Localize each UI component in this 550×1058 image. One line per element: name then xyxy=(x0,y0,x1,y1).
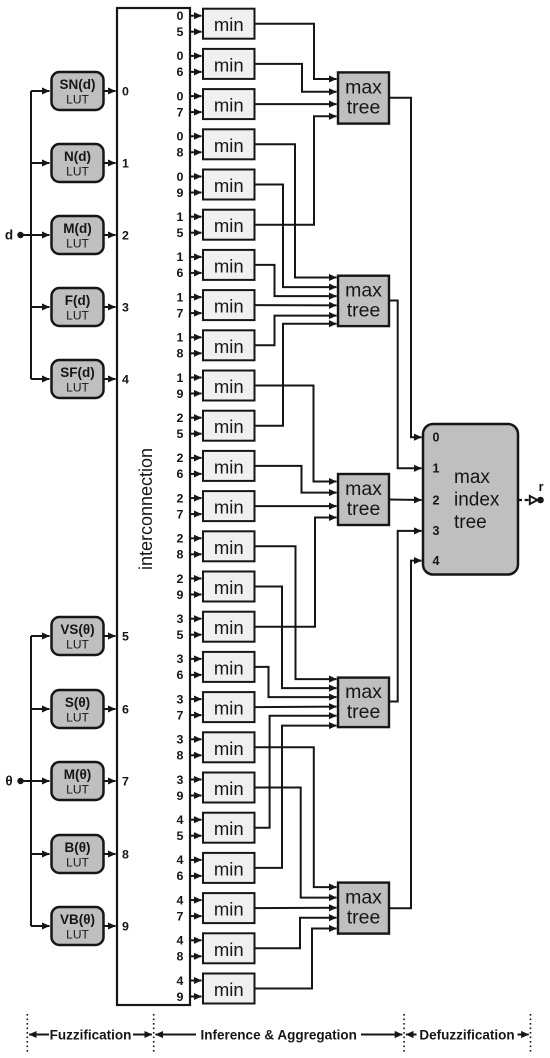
svg-text:1: 1 xyxy=(177,331,184,345)
output r open arrowhead xyxy=(530,496,538,504)
wire min 4,8 to max tree 5 xyxy=(255,918,337,949)
svg-text:min: min xyxy=(214,537,244,558)
svg-text:0: 0 xyxy=(177,49,184,63)
wire min 0,8 to max tree 2 xyxy=(255,144,337,277)
svg-text:3: 3 xyxy=(433,524,440,538)
wire M(θ) output to interconnection, node 7 xyxy=(104,780,116,782)
svg-text:min: min xyxy=(214,979,244,1000)
wire SF(d) output to interconnection, node 4 xyxy=(104,378,116,380)
wire min 1,5 to max tree 1 xyxy=(255,116,337,224)
svg-text:M(d): M(d) xyxy=(63,221,91,236)
svg-text:min: min xyxy=(214,738,244,759)
svg-text:2: 2 xyxy=(177,411,184,425)
svg-text:9: 9 xyxy=(177,186,184,200)
svg-text:9: 9 xyxy=(122,919,129,933)
Fuzzification phase label xyxy=(29,1027,152,1042)
wire min 3,5 to max tree 3 xyxy=(255,518,337,627)
svg-text:min: min xyxy=(214,899,244,920)
min block 11 (rule 2,5) xyxy=(177,411,255,441)
svg-text:9: 9 xyxy=(177,387,184,401)
svg-text:2: 2 xyxy=(177,532,184,546)
svg-text:6: 6 xyxy=(177,869,184,883)
svg-text:min: min xyxy=(214,376,244,397)
wire N(d) output to interconnection, node 1 xyxy=(104,162,116,164)
max tree block 5 xyxy=(338,883,389,934)
wire min 2,5 to max tree 2 xyxy=(255,324,337,426)
wire min 2,7 to max tree 3 xyxy=(255,505,337,507)
svg-text:tree: tree xyxy=(347,96,381,118)
min block 5 (rule 0,9) xyxy=(177,170,255,200)
Inference &amp; Aggregation phase label xyxy=(156,1027,403,1042)
phase separator dotted line x=153.7 xyxy=(153,1014,155,1052)
wire min 3,6 to max tree 4 xyxy=(255,667,337,697)
svg-text:3: 3 xyxy=(122,300,129,314)
svg-text:min: min xyxy=(214,54,244,75)
min block 20 (rule 3,9) xyxy=(177,773,255,803)
wire min 2,8 to max tree 4 xyxy=(255,546,337,679)
svg-text:7: 7 xyxy=(177,708,184,722)
svg-text:5: 5 xyxy=(177,829,184,843)
interconnection block xyxy=(117,8,190,1005)
svg-text:4: 4 xyxy=(177,813,184,827)
wire θ bus branch y=854 xyxy=(31,853,50,855)
LUT block M(d) xyxy=(52,216,104,254)
min block 8 (rule 1,7) xyxy=(177,290,255,320)
max tree block 3 xyxy=(338,474,389,525)
wire min 3,7 to max tree 4 xyxy=(255,706,337,709)
wire max tree 3 output to max index tree pin 2 xyxy=(389,499,422,502)
svg-text:5: 5 xyxy=(177,628,184,642)
svg-text:4: 4 xyxy=(177,853,184,867)
svg-text:Fuzzification: Fuzzification xyxy=(50,1027,132,1042)
svg-text:min: min xyxy=(214,577,244,598)
svg-text:1: 1 xyxy=(177,371,184,385)
svg-text:Inference & Aggregation: Inference & Aggregation xyxy=(201,1027,357,1042)
min block 6 (rule 1,5) xyxy=(177,210,255,240)
svg-text:θ: θ xyxy=(5,774,12,789)
svg-text:min: min xyxy=(214,456,244,477)
wire max tree 5 output to max index tree pin 4 xyxy=(389,561,422,909)
wire min 3,9 to max tree 5 xyxy=(255,788,337,898)
LUT block F(d) xyxy=(52,288,104,326)
svg-text:5: 5 xyxy=(122,629,129,643)
svg-text:LUT: LUT xyxy=(66,309,89,323)
svg-text:min: min xyxy=(214,175,244,196)
min block 7 (rule 1,6) xyxy=(177,250,255,280)
svg-text:3: 3 xyxy=(177,692,184,706)
svg-text:4: 4 xyxy=(433,554,440,568)
min block 12 (rule 2,6) xyxy=(177,451,255,481)
min block 14 (rule 2,8) xyxy=(177,531,255,561)
min block 2 (rule 0,6) xyxy=(177,49,255,79)
svg-text:4: 4 xyxy=(177,893,184,907)
svg-text:tree: tree xyxy=(347,498,381,520)
LUT block SF(d) xyxy=(52,360,104,398)
min block 24 (rule 4,8) xyxy=(177,933,255,963)
svg-text:LUT: LUT xyxy=(66,783,89,797)
min block 10 (rule 1,9) xyxy=(177,371,255,401)
svg-text:min: min xyxy=(214,336,244,357)
svg-text:interconnection: interconnection xyxy=(136,448,156,570)
svg-text:2: 2 xyxy=(122,228,129,242)
max tree block 4 xyxy=(338,678,389,728)
svg-text:9: 9 xyxy=(177,990,184,1004)
LUT block M(θ) xyxy=(52,762,104,800)
svg-text:6: 6 xyxy=(177,266,184,280)
svg-text:4: 4 xyxy=(177,934,184,948)
svg-text:min: min xyxy=(214,778,244,799)
LUT block N(d) xyxy=(52,144,104,182)
min block 17 (rule 3,6) xyxy=(177,652,255,682)
min block 1 (rule 0,5) xyxy=(177,9,255,39)
svg-text:0: 0 xyxy=(177,130,184,144)
svg-text:VS(θ): VS(θ) xyxy=(60,622,94,637)
min block 15 (rule 2,9) xyxy=(177,572,255,602)
svg-text:r: r xyxy=(539,480,544,494)
wire θ bus branch y=926 xyxy=(31,925,50,927)
svg-text:min: min xyxy=(214,416,244,437)
wire min 0,6 to max tree 1 xyxy=(255,64,337,92)
svg-text:7: 7 xyxy=(122,774,129,788)
wire max tree 2 output to max index tree pin 1 xyxy=(389,301,422,469)
wire VS(θ) output to interconnection, node 5 xyxy=(104,635,116,637)
svg-text:1: 1 xyxy=(177,290,184,304)
output r dashed wire xyxy=(518,499,529,501)
svg-text:min: min xyxy=(214,95,244,116)
max index tree block xyxy=(423,424,518,575)
Defuzzification phase label xyxy=(406,1027,529,1042)
svg-text:0: 0 xyxy=(122,84,129,98)
svg-text:2: 2 xyxy=(177,491,184,505)
svg-text:1: 1 xyxy=(122,156,129,170)
wire d bus branch y=379 xyxy=(31,378,50,380)
svg-text:max: max xyxy=(345,478,382,500)
svg-text:SF(d): SF(d) xyxy=(60,365,95,380)
svg-text:max: max xyxy=(345,279,382,301)
LUT block VS(θ) xyxy=(52,617,104,655)
svg-text:3: 3 xyxy=(177,612,184,626)
wire min 2,6 to max tree 3 xyxy=(255,466,337,493)
svg-text:N(d): N(d) xyxy=(64,149,91,164)
svg-text:3: 3 xyxy=(177,773,184,787)
svg-text:4: 4 xyxy=(122,372,129,386)
wire min 4,6 to max tree 4 xyxy=(255,726,337,868)
wire min 4,9 to max tree 5 xyxy=(255,929,337,989)
wire d to M(d) xyxy=(21,234,50,236)
svg-text:LUT: LUT xyxy=(66,711,89,725)
svg-text:5: 5 xyxy=(177,226,184,240)
svg-text:6: 6 xyxy=(177,65,184,79)
d branch bus xyxy=(30,91,32,379)
svg-text:LUT: LUT xyxy=(66,237,89,251)
wire min 4,7 to max tree 5 xyxy=(255,907,337,909)
svg-text:LUT: LUT xyxy=(66,928,89,942)
max tree block 1 xyxy=(338,72,389,123)
svg-text:7: 7 xyxy=(177,909,184,923)
phase separator dotted line x=404.1 xyxy=(403,1014,405,1052)
svg-text:min: min xyxy=(214,939,244,960)
svg-text:7: 7 xyxy=(177,507,184,521)
svg-text:0: 0 xyxy=(177,9,184,23)
svg-text:max: max xyxy=(345,681,382,703)
svg-text:F(d): F(d) xyxy=(65,293,90,308)
output r node dot xyxy=(537,497,544,504)
svg-text:tree: tree xyxy=(347,701,381,723)
svg-text:8: 8 xyxy=(177,347,184,361)
wire min 1,7 to max tree 2 xyxy=(255,304,337,306)
min block 9 (rule 1,8) xyxy=(177,330,255,360)
wire min 0,5 to max tree 1 xyxy=(255,24,337,79)
svg-text:5: 5 xyxy=(177,427,184,441)
svg-text:0: 0 xyxy=(177,170,184,184)
svg-text:5: 5 xyxy=(177,25,184,39)
min block 25 (rule 4,9) xyxy=(177,974,255,1004)
svg-text:6: 6 xyxy=(177,467,184,481)
svg-text:4: 4 xyxy=(177,974,184,988)
wire max tree 4 output to max index tree pin 3 xyxy=(389,531,422,702)
svg-text:min: min xyxy=(214,215,244,236)
svg-text:6: 6 xyxy=(122,702,129,716)
svg-text:tree: tree xyxy=(347,299,381,321)
wire d bus branch y=307 xyxy=(31,306,50,308)
svg-text:min: min xyxy=(214,497,244,518)
wire max tree 1 output to max index tree pin 0 xyxy=(389,98,422,438)
min block 18 (rule 3,7) xyxy=(177,692,255,722)
svg-text:6: 6 xyxy=(177,668,184,682)
LUT block VB(θ) xyxy=(52,907,104,945)
wire d bus branch y=91 xyxy=(31,90,50,92)
svg-text:min: min xyxy=(214,135,244,156)
svg-text:2: 2 xyxy=(433,493,440,507)
wire S(θ) output to interconnection, node 6 xyxy=(104,708,116,710)
phase separator dotted line x=27.3 xyxy=(26,1014,28,1052)
svg-text:max: max xyxy=(345,887,382,909)
svg-text:VB(θ): VB(θ) xyxy=(60,912,95,927)
min block 21 (rule 4,5) xyxy=(177,813,255,843)
wire min 0,7 to max tree 1 xyxy=(255,103,337,105)
svg-text:B(θ): B(θ) xyxy=(64,840,90,855)
LUT block B(θ) xyxy=(52,835,104,873)
svg-text:0: 0 xyxy=(433,431,440,445)
svg-text:3: 3 xyxy=(177,733,184,747)
wire θ to M(θ) xyxy=(21,780,50,782)
wire θ bus branch y=709 xyxy=(31,708,50,710)
wire min 1,8 to max tree 2 xyxy=(255,316,337,346)
wire min 2,9 to max tree 4 xyxy=(255,587,337,689)
svg-text:min: min xyxy=(214,858,244,879)
svg-text:1: 1 xyxy=(177,250,184,264)
svg-text:7: 7 xyxy=(177,306,184,320)
svg-text:min: min xyxy=(214,657,244,678)
svg-text:max: max xyxy=(454,467,490,488)
svg-text:LUT: LUT xyxy=(66,381,89,395)
svg-text:S(θ): S(θ) xyxy=(65,695,90,710)
svg-text:min: min xyxy=(214,296,244,317)
svg-text:max: max xyxy=(345,76,382,98)
svg-text:min: min xyxy=(214,14,244,35)
svg-text:2: 2 xyxy=(177,451,184,465)
max tree block 2 xyxy=(338,276,389,326)
θ branch bus xyxy=(30,636,32,926)
min block 3 (rule 0,7) xyxy=(177,89,255,119)
wire VB(θ) output to interconnection, node 9 xyxy=(104,925,116,927)
svg-text:min: min xyxy=(214,255,244,276)
svg-text:Defuzzification: Defuzzification xyxy=(419,1027,514,1042)
wire min 0,9 to max tree 2 xyxy=(255,185,337,288)
wire min 1,6 to max tree 2 xyxy=(255,265,337,296)
svg-text:index: index xyxy=(454,490,500,511)
min block 13 (rule 2,7) xyxy=(177,491,255,521)
wire θ bus branch y=636 xyxy=(31,635,50,637)
svg-text:9: 9 xyxy=(177,789,184,803)
min block 23 (rule 4,7) xyxy=(177,893,255,923)
wire M(d) output to interconnection, node 2 xyxy=(104,234,116,236)
svg-text:8: 8 xyxy=(177,146,184,160)
wire SN(d) output to interconnection, node 0 xyxy=(104,90,116,92)
wire min 3,8 to max tree 5 xyxy=(255,747,337,887)
svg-text:min: min xyxy=(214,617,244,638)
svg-text:1: 1 xyxy=(433,462,440,476)
svg-text:LUT: LUT xyxy=(66,638,89,652)
min block 22 (rule 4,6) xyxy=(177,853,255,883)
LUT block S(θ) xyxy=(52,690,104,728)
wire min 4,5 to max tree 4 xyxy=(255,716,337,828)
svg-text:7: 7 xyxy=(177,105,184,119)
svg-text:tree: tree xyxy=(347,907,381,929)
svg-text:LUT: LUT xyxy=(66,93,89,107)
svg-text:LUT: LUT xyxy=(66,856,89,870)
LUT block SN(d) xyxy=(52,72,104,110)
svg-text:tree: tree xyxy=(454,512,487,533)
svg-text:3: 3 xyxy=(177,652,184,666)
svg-text:0: 0 xyxy=(177,89,184,103)
svg-text:8: 8 xyxy=(177,548,184,562)
wire d bus branch y=163 xyxy=(31,162,50,164)
wire min 1,9 to max tree 3 xyxy=(255,386,337,482)
svg-text:8: 8 xyxy=(177,749,184,763)
wire F(d) output to interconnection, node 3 xyxy=(104,306,116,308)
svg-text:8: 8 xyxy=(177,950,184,964)
svg-text:SN(d): SN(d) xyxy=(60,77,96,92)
svg-text:LUT: LUT xyxy=(66,165,89,179)
svg-text:M(θ): M(θ) xyxy=(64,767,92,782)
svg-text:2: 2 xyxy=(177,572,184,586)
svg-text:d: d xyxy=(5,228,13,243)
svg-text:min: min xyxy=(214,698,244,719)
svg-text:min: min xyxy=(214,818,244,839)
min block 16 (rule 3,5) xyxy=(177,612,255,642)
phase separator dotted line x=530.5 xyxy=(530,1014,532,1052)
min block 4 (rule 0,8) xyxy=(177,129,255,159)
svg-text:9: 9 xyxy=(177,588,184,602)
wire B(θ) output to interconnection, node 8 xyxy=(104,853,116,855)
svg-text:1: 1 xyxy=(177,210,184,224)
min block 19 (rule 3,8) xyxy=(177,732,255,762)
svg-text:8: 8 xyxy=(122,847,129,861)
